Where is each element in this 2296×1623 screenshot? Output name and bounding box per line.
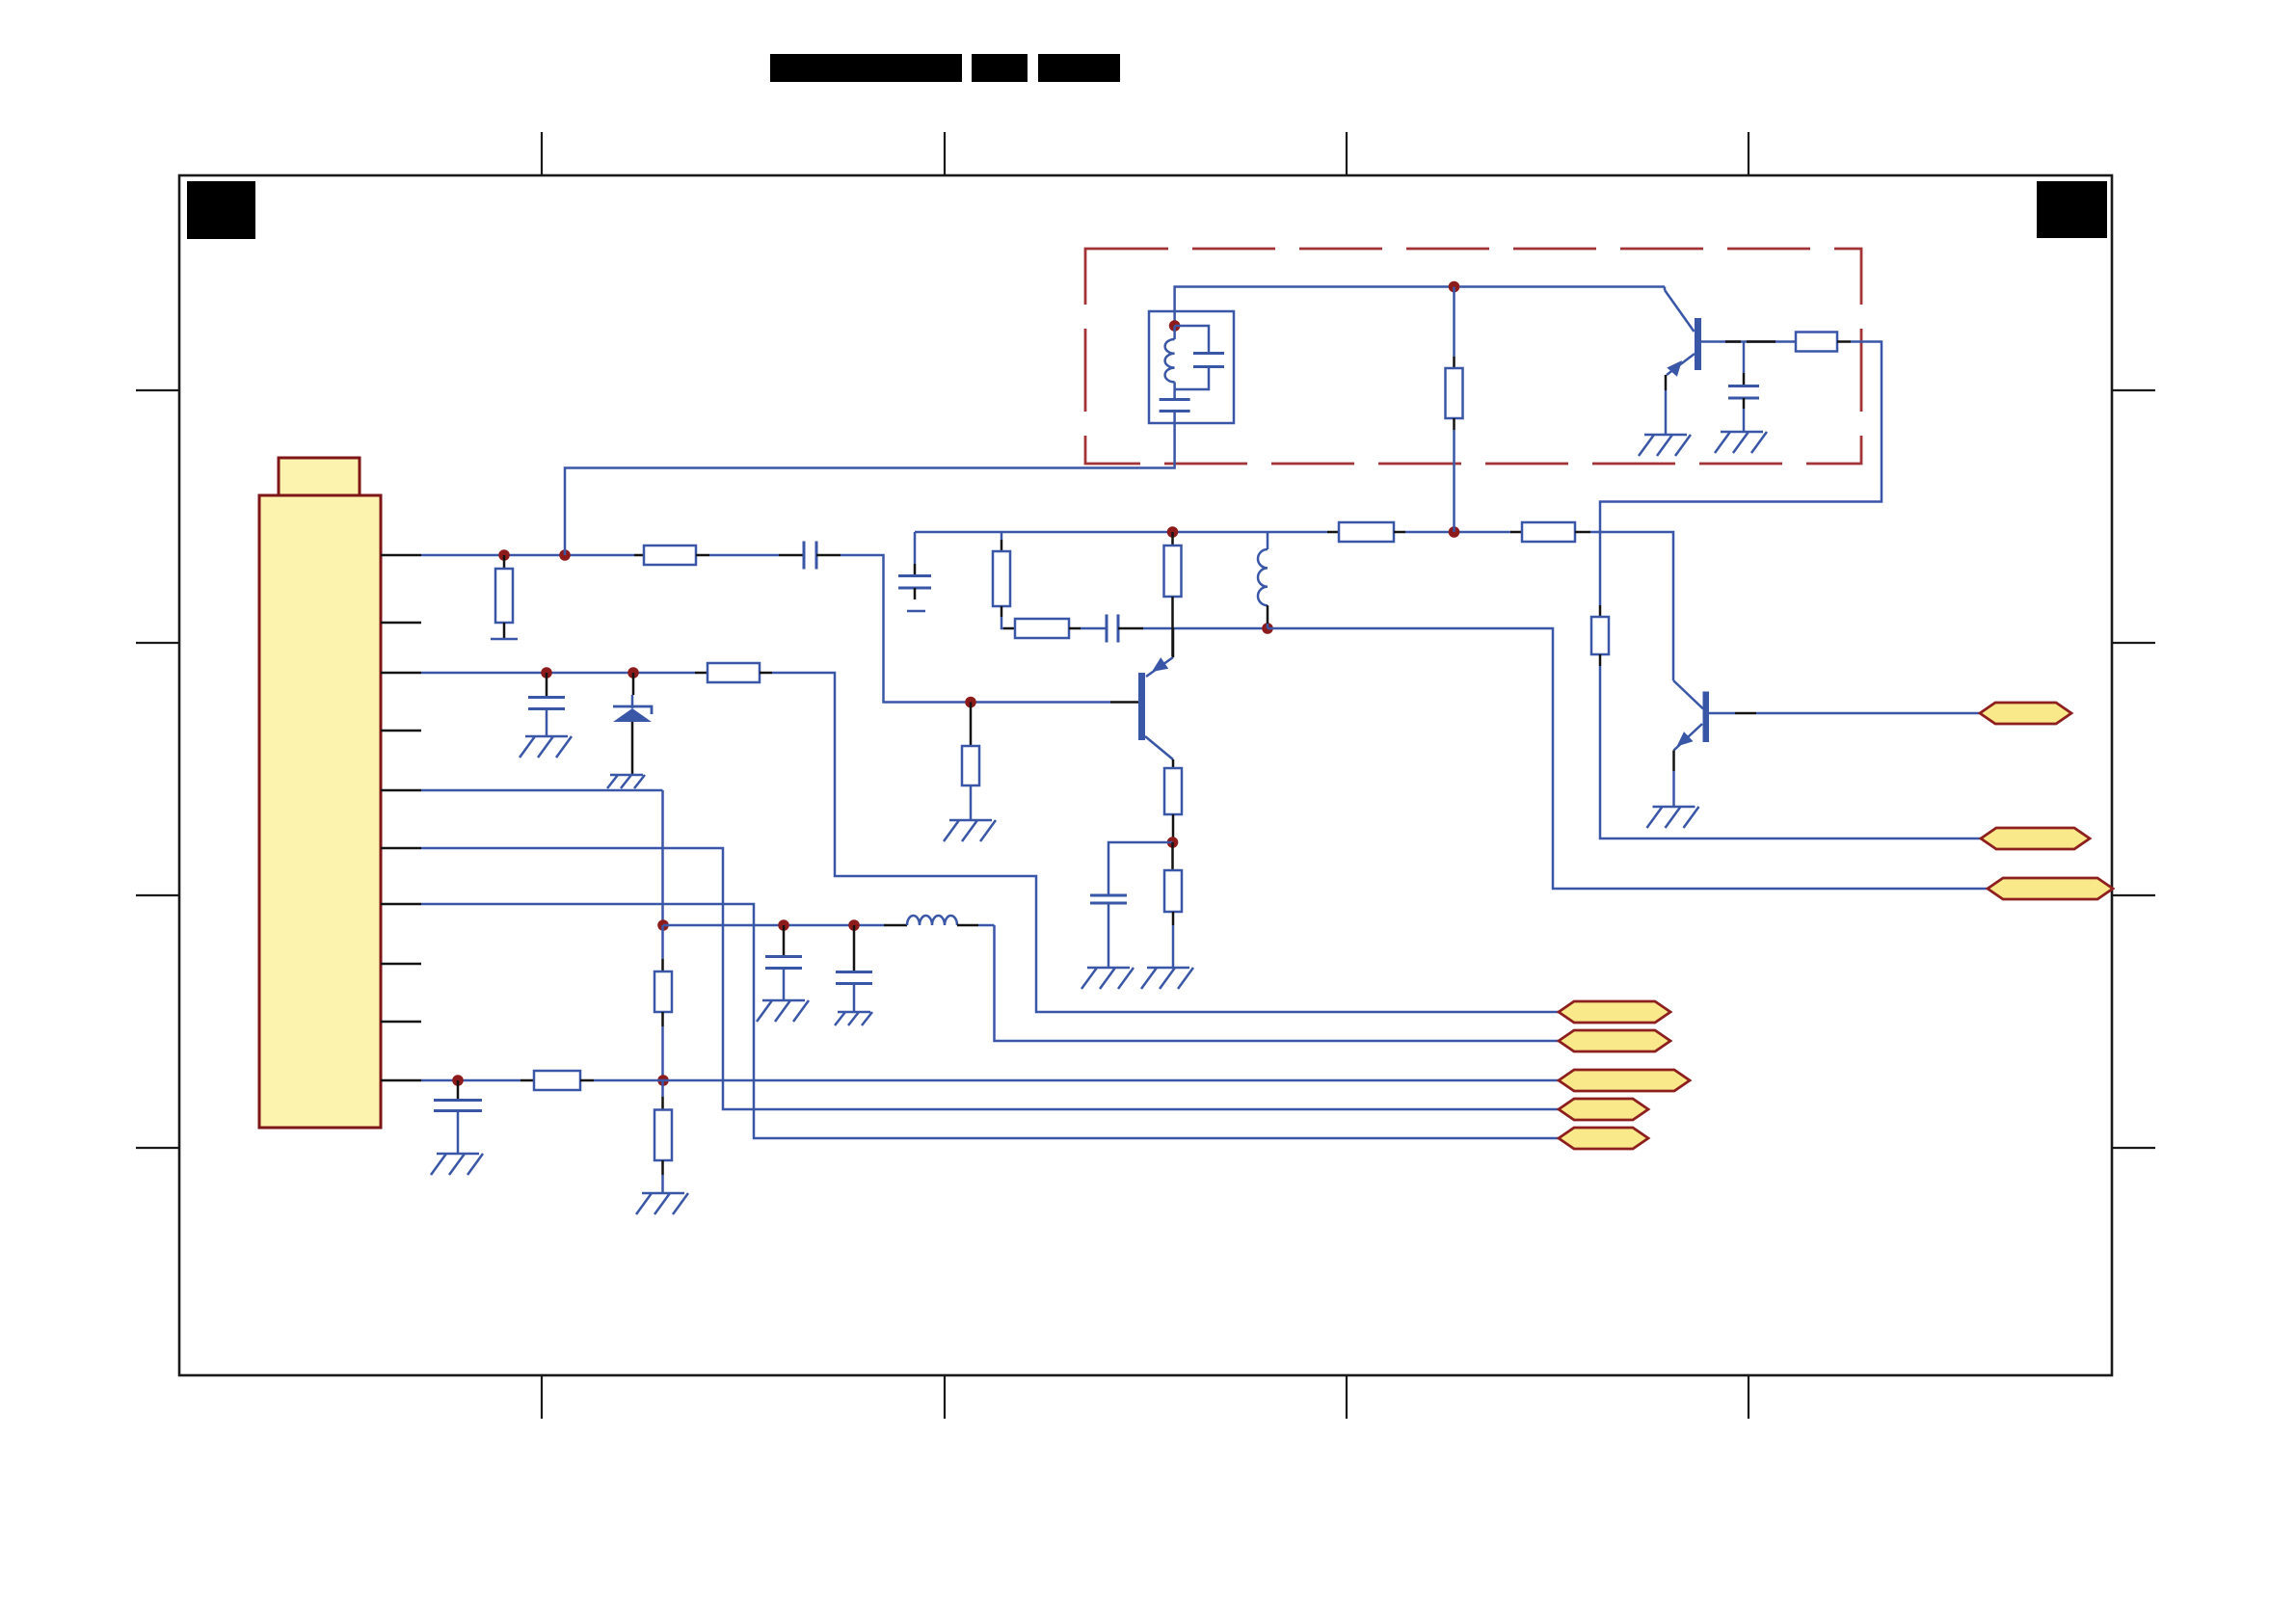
inductor L1 (osc tank) bbox=[1267, 532, 1269, 549]
ground (C7) bbox=[757, 1000, 809, 1022]
net flag AFC bbox=[1559, 1070, 1690, 1091]
transistor Q1 collector bbox=[1664, 287, 1667, 291]
wire net A (C1 to Q2 base) bbox=[816, 554, 841, 557]
wire supply bus bbox=[663, 924, 884, 927]
junction net B / C2 bbox=[541, 667, 552, 678]
junction net A / crystal feed bbox=[559, 549, 571, 561]
wire bus mid bbox=[1405, 531, 1510, 534]
transistor Q2 base bar bbox=[1138, 673, 1145, 740]
capacitor C9 bbox=[457, 1080, 460, 1100]
IC U1 pin 2 stub bbox=[381, 622, 421, 625]
wire Q1 output to R14 bbox=[1600, 342, 1882, 606]
net flag SCL bbox=[1559, 1128, 1648, 1149]
wire R14 to flag RF-OUT bbox=[1600, 666, 1981, 838]
wire R10-R11 bbox=[661, 1026, 664, 1080]
capacitor C8 bbox=[853, 925, 856, 971]
resistor R17 (Q2 collector 2) bbox=[1171, 842, 1174, 870]
junction net F / C9 bbox=[452, 1075, 464, 1086]
net flag +VT bbox=[1559, 1030, 1670, 1051]
transistor Q2 emitter bbox=[1146, 657, 1173, 677]
resistor R10 (divider upper) bbox=[654, 971, 672, 1012]
transistor Q3 emitter bbox=[1674, 724, 1703, 751]
IC U1 pin 5 stub bbox=[381, 789, 421, 792]
resistor R5 (feedback) bbox=[1003, 627, 1015, 630]
net flag BUF OUT bbox=[1980, 703, 2071, 724]
resistor R1 (pulldown on net A) bbox=[503, 555, 506, 569]
junction net F / divider bbox=[657, 1075, 669, 1086]
resistor R7 (bus series 1) bbox=[1327, 531, 1339, 534]
resistor R15 (series net F) bbox=[534, 1071, 580, 1090]
wire net E (pin7 to flag SCL) bbox=[421, 904, 1559, 1138]
wire net C (pin5 to supply bus) bbox=[421, 789, 663, 792]
wire Q1 base bbox=[1701, 340, 1796, 343]
wire C4 to node bbox=[1118, 627, 1143, 630]
IC U1 pin 1 stub bbox=[381, 554, 421, 557]
wire net F (to flag AFC) bbox=[594, 1079, 1559, 1082]
capacitor C1 (coupling, net A) bbox=[804, 542, 816, 570]
junction feedback node bbox=[1262, 623, 1273, 634]
ground (C5) bbox=[1081, 968, 1134, 989]
wire net B (pin3) bbox=[421, 672, 695, 675]
wire net A (pin1 bus) bbox=[421, 554, 634, 557]
ground (Q1 emitter) bbox=[1639, 435, 1691, 456]
wire crystal top bbox=[1175, 287, 1665, 327]
wire net B (to flag TO-AGC) bbox=[772, 673, 1559, 1012]
inductor L2 (supply filter) bbox=[884, 924, 907, 927]
wire to flag +VT bbox=[995, 925, 1560, 1041]
crystal series capacitor bbox=[1173, 389, 1176, 399]
transistor Q1 emitter bbox=[1667, 354, 1695, 375]
capacitor C7 bbox=[783, 925, 786, 956]
transistor Q1 base bar bbox=[1695, 318, 1701, 370]
zener diode D1 bbox=[632, 673, 635, 695]
resistor R16 (Q2 collector 1) bbox=[1164, 768, 1182, 814]
junction bus / R12 bbox=[1449, 526, 1460, 538]
wire oscillator bus bbox=[915, 531, 1327, 534]
resistor R4 (bias upper) bbox=[1001, 532, 1003, 540]
capacitor C5 bbox=[1090, 895, 1127, 903]
ground (C8) bbox=[835, 1012, 872, 1025]
net flag TO-AGC bbox=[1559, 1001, 1670, 1023]
wire R5-C4 bbox=[1081, 627, 1106, 630]
resistor R8 (bus series 2) bbox=[1510, 531, 1522, 534]
IC U1 pin 10 stub bbox=[381, 1079, 421, 1082]
redaction bar (title) bbox=[770, 54, 962, 82]
transistor Q2 collector bbox=[1145, 736, 1173, 759]
redaction bar 3 bbox=[1038, 54, 1120, 82]
resistor R14 (to flag) bbox=[1591, 617, 1609, 654]
terminator bar below R1 bbox=[491, 638, 518, 641]
capacitor C4 (feedback) bbox=[1107, 615, 1118, 643]
junction supply bus left bbox=[657, 919, 669, 931]
ground (R9) bbox=[944, 820, 996, 841]
wire net F (pin10) bbox=[421, 1079, 521, 1082]
wire bus to Q3 collector bbox=[1590, 532, 1673, 680]
redaction square top-right bbox=[2037, 181, 2107, 238]
resistor R13 (Q1 output) bbox=[1796, 333, 1837, 352]
junction net B / D1 bbox=[627, 667, 639, 678]
wire collector node to C5 bbox=[1108, 842, 1173, 894]
IC U1 pin 7 stub bbox=[381, 903, 421, 906]
resistor R2 (series on net A) bbox=[634, 554, 644, 557]
redaction bar 2 bbox=[972, 54, 1028, 82]
resistor R11 (divider lower) bbox=[661, 1080, 664, 1097]
drawing frame border bbox=[179, 175, 2112, 1375]
junction bus / R6 bbox=[1167, 526, 1179, 538]
ground (C6) bbox=[1715, 432, 1767, 453]
capacitor C6 (Q1 base) bbox=[1743, 342, 1746, 374]
net flag OSC OUT bbox=[1988, 878, 2113, 899]
wire net A (to C1) bbox=[709, 554, 779, 557]
IC U1 pin 8 stub bbox=[381, 963, 421, 966]
ground (R17) bbox=[1141, 968, 1193, 989]
transistor Q3 collector bbox=[1673, 680, 1703, 709]
junction Q2 collector node bbox=[1167, 837, 1179, 848]
ground (C9) bbox=[431, 1154, 483, 1175]
terminator bar below C3 bbox=[907, 610, 925, 613]
ground (D1) bbox=[607, 775, 645, 788]
redaction square top-left bbox=[187, 181, 255, 239]
resistor R6 (Q2 emitter load) bbox=[1171, 532, 1174, 545]
junction osc top wire / R12 bbox=[1449, 281, 1460, 293]
crystal X1 outline box bbox=[1149, 311, 1234, 423]
transistor Q3 base bar bbox=[1703, 692, 1710, 743]
net flag RF OUT bbox=[1981, 828, 2090, 849]
net flag SDA bbox=[1559, 1099, 1648, 1120]
wire feedback node to flag OSC bbox=[1268, 628, 1988, 889]
junction bus / C8 bbox=[848, 919, 860, 931]
wire net D (pin6 to flag SDA) bbox=[421, 848, 1559, 1109]
wire crystal bottom to net A bbox=[565, 423, 1175, 555]
frame zone tick marks bbox=[541, 132, 543, 175]
wire R10 top stub bbox=[661, 925, 664, 959]
resistor R3 (series on net B) bbox=[695, 672, 707, 675]
junction crystal top node bbox=[1169, 320, 1181, 332]
wire Q3 base to flag bbox=[1709, 712, 1735, 715]
ground (C2) bbox=[520, 736, 572, 758]
ground (R11) bbox=[636, 1193, 688, 1214]
resistor R12 (osc divider) bbox=[1453, 287, 1455, 358]
capacitor C3 (bus left end) bbox=[914, 532, 917, 564]
IC U1 body (yellow block) bbox=[259, 495, 381, 1128]
junction Q2 base / R9 bbox=[965, 697, 976, 708]
capacitor C2 (net B decoupling) bbox=[546, 673, 548, 697]
crystal capacitor arm bbox=[1175, 326, 1209, 353]
IC U1 tab bbox=[279, 458, 360, 495]
dashed module outline bbox=[1085, 249, 1861, 464]
IC U1 pin 3 stub bbox=[381, 672, 421, 675]
IC U1 pin 9 stub bbox=[381, 1021, 421, 1024]
IC U1 pin 6 stub bbox=[381, 847, 421, 850]
ground (Q3 emitter) bbox=[1647, 807, 1699, 828]
junction bus / C7 bbox=[778, 919, 789, 931]
crystal inductor arm bbox=[1173, 326, 1176, 339]
resistor R9 (Q2 base pulldown) bbox=[970, 703, 973, 747]
junction net A / R1 bbox=[498, 549, 510, 561]
IC U1 pin 4 stub bbox=[381, 730, 421, 732]
